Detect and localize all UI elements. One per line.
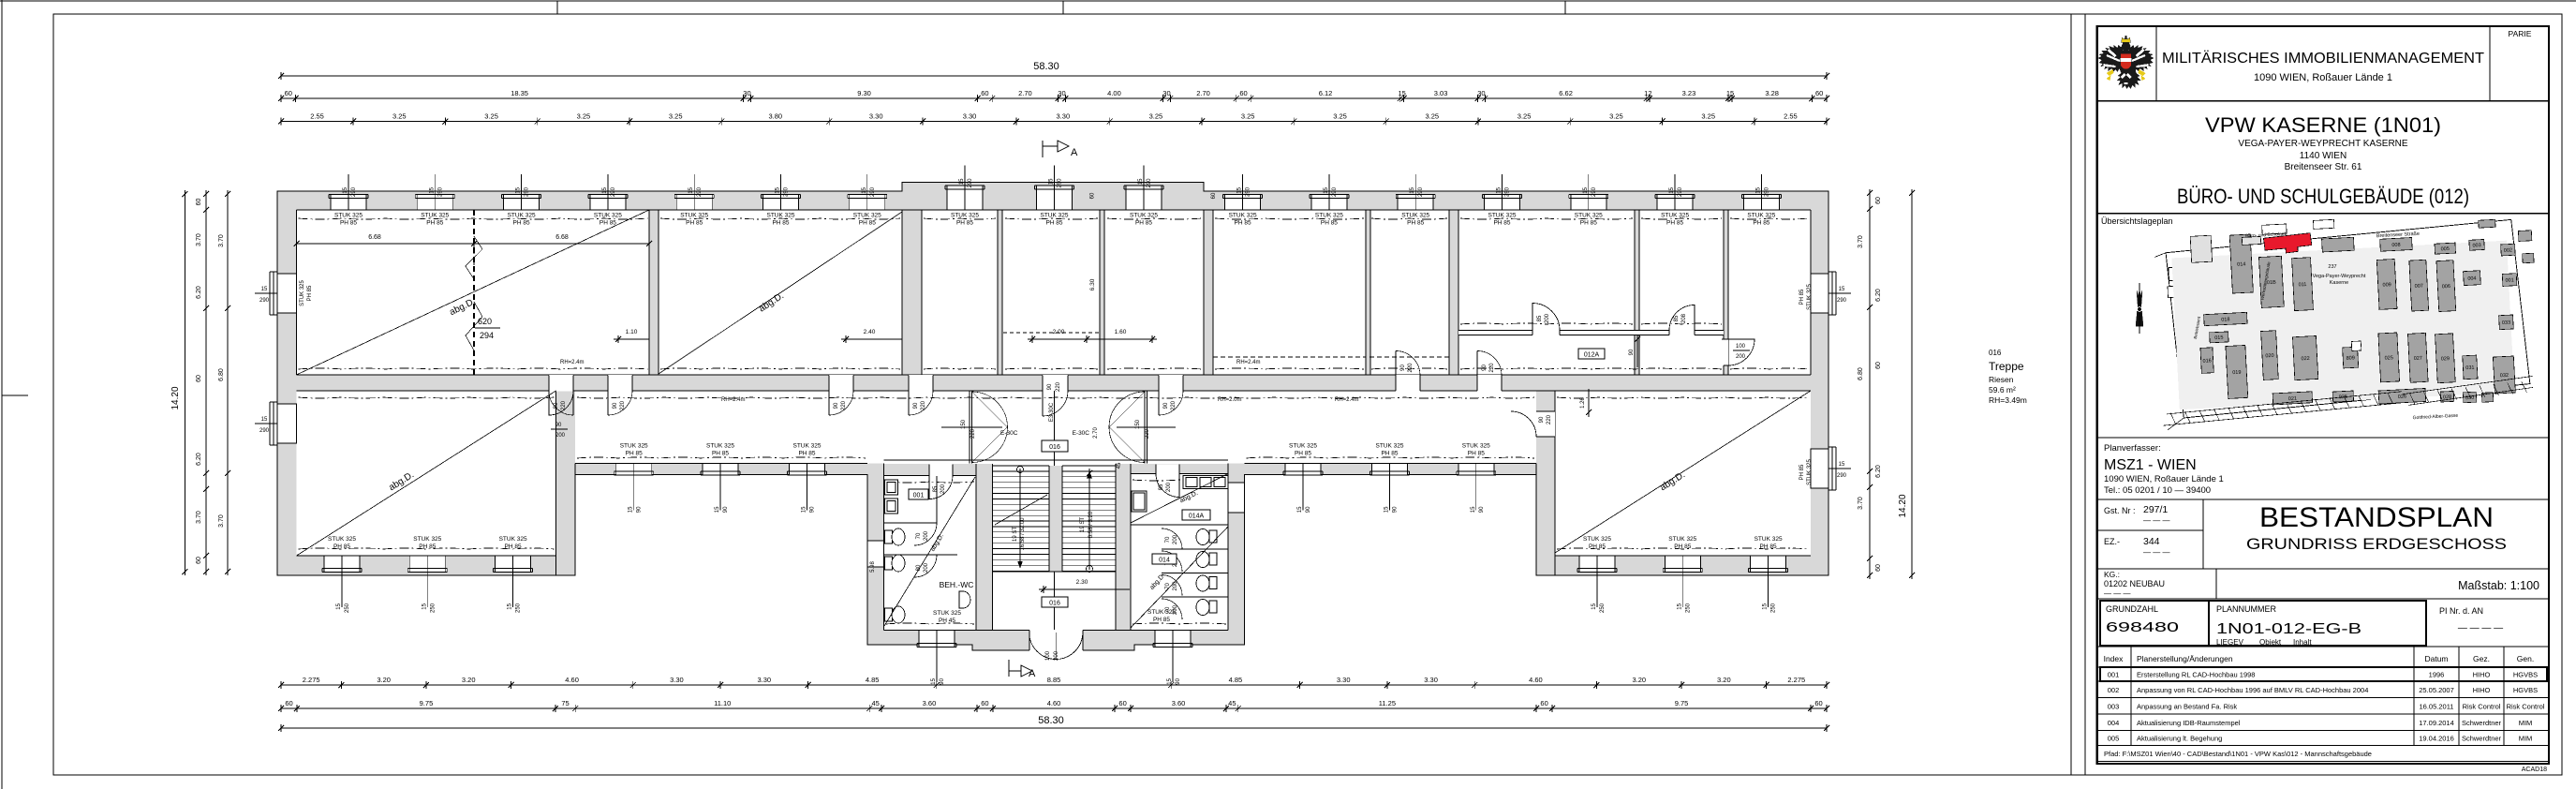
svg-text:200: 200: [1736, 354, 1746, 360]
svg-text:60: 60: [1875, 564, 1882, 572]
svg-text:60: 60: [1118, 699, 1126, 707]
svg-text:2.275: 2.275: [303, 676, 320, 684]
svg-text:PH 85: PH 85: [1321, 220, 1338, 227]
courtyard facade window 1: [614, 443, 654, 514]
staircase: [993, 462, 1123, 572]
svg-text:6.58 / 3.20: 6.58 / 3.20: [1088, 511, 1094, 538]
title area divider line 1: [2070, 14, 2072, 775]
upper thin partition 1: [998, 210, 1002, 375]
right wing south window 1: [1577, 536, 1617, 613]
svg-text:15: 15: [1324, 186, 1329, 193]
svg-text:— — —: — — —: [2104, 589, 2130, 598]
corridor door 4 90/220: [909, 375, 933, 415]
svg-text:220: 220: [841, 400, 847, 410]
svg-text:STUK 325: STUK 325: [1130, 213, 1158, 219]
top facade window 12: [1310, 174, 1349, 227]
svg-text:90: 90: [1482, 365, 1488, 371]
svg-text:Schwerdtner: Schwerdtner: [2462, 735, 2502, 743]
svg-text:15: 15: [516, 186, 522, 193]
west facade window upper: [255, 272, 313, 315]
svg-text:45: 45: [871, 699, 879, 707]
svg-text:290: 290: [259, 428, 270, 434]
svg-text:3.70: 3.70: [1858, 497, 1864, 510]
svg-text:PH 85: PH 85: [772, 220, 789, 227]
svg-text:90: 90: [1629, 349, 1635, 355]
svg-text:HGVBS: HGVBS: [2513, 686, 2538, 694]
svg-text:005: 005: [2441, 246, 2450, 252]
svg-text:15: 15: [959, 178, 965, 185]
svg-text:15: 15: [931, 677, 937, 684]
svg-text:032: 032: [2500, 373, 2509, 379]
svg-text:STUK 325: STUK 325: [853, 213, 881, 219]
svg-text:STUK 325: STUK 325: [300, 280, 305, 306]
svg-text:2.70: 2.70: [1093, 427, 1099, 439]
svg-text:14.20: 14.20: [170, 386, 181, 409]
upper thin partition 5: [1724, 210, 1728, 375]
corridor centre door 90/220: [1043, 375, 1068, 416]
upper thin partition 3: [1366, 210, 1370, 375]
svg-text:90: 90: [555, 423, 562, 428]
svg-text:294: 294: [480, 331, 494, 340]
svg-text:90: 90: [810, 506, 816, 513]
svg-text:30: 30: [1058, 89, 1065, 97]
svg-text:STUK 325: STUK 325: [413, 536, 441, 543]
stair spine wall: [1049, 466, 1062, 572]
svg-text:220: 220: [1145, 428, 1150, 439]
centre block south window 2: [1153, 631, 1192, 685]
centre block right wall: [1228, 464, 1245, 646]
svg-text:3.25: 3.25: [484, 112, 498, 121]
svg-text:290: 290: [351, 186, 357, 197]
svg-text:90: 90: [940, 677, 945, 684]
svg-text:015: 015: [2214, 335, 2223, 341]
site plan buildings: [2170, 217, 2541, 418]
svg-text:STUK 325: STUK 325: [793, 443, 822, 450]
svg-text:150: 150: [961, 419, 967, 429]
wavy centre block lines: [886, 480, 1227, 624]
svg-text:15: 15: [1583, 186, 1589, 193]
svg-text:PH 85: PH 85: [513, 220, 530, 227]
svg-text:150: 150: [1135, 419, 1141, 429]
svg-text:9.75: 9.75: [420, 699, 434, 707]
svg-text:1090 WIEN, Roßauer Lände 1: 1090 WIEN, Roßauer Lände 1: [2104, 474, 2224, 484]
left wing south window 2: [407, 536, 447, 613]
svg-text:19.04.2016: 19.04.2016: [2419, 735, 2454, 743]
svg-text:Ersterstellung RL CAD-Hochbau: Ersterstellung RL CAD-Hochbau 1998: [2137, 671, 2255, 679]
hallway 012A door 1: [1532, 304, 1560, 336]
svg-text:STUK 325: STUK 325: [620, 443, 648, 450]
svg-text:200: 200: [1054, 650, 1059, 661]
corridor door 3 90/220: [829, 375, 853, 415]
svg-text:90: 90: [613, 402, 618, 409]
top facade window 13: [1396, 174, 1435, 227]
svg-text:Riesen: Riesen: [1989, 375, 2014, 384]
svg-text:3.30: 3.30: [1057, 112, 1071, 121]
left wing south window 1: [322, 536, 362, 613]
svg-text:Inhalt: Inhalt: [2293, 638, 2312, 647]
svg-text:60: 60: [1814, 699, 1822, 707]
svg-text:VPW KASERNE (1N01): VPW KASERNE (1N01): [2205, 113, 2441, 137]
svg-text:STUK 325: STUK 325: [1488, 213, 1517, 219]
grundzahl plannummer cells: [2097, 601, 2549, 647]
svg-text:PH 85: PH 85: [1153, 617, 1170, 623]
svg-text:PH 85: PH 85: [307, 285, 313, 301]
svg-text:VEGA-PAYER-WEYPRECHT KASERNE: VEGA-PAYER-WEYPRECHT KASERNE: [2238, 139, 2407, 149]
top facade window 10: [1124, 166, 1163, 227]
parie label: [2509, 29, 2532, 38]
svg-text:4.60: 4.60: [565, 676, 579, 684]
svg-text:031: 031: [2465, 365, 2474, 371]
svg-text:STUK 325: STUK 325: [933, 610, 961, 617]
svg-text:RH=3.49m: RH=3.49m: [1989, 395, 2027, 405]
svg-text:PH 85: PH 85: [1799, 464, 1805, 480]
svg-text:250: 250: [1600, 603, 1606, 613]
svg-text:001: 001: [913, 493, 925, 499]
svg-text:PH 85: PH 85: [798, 451, 815, 457]
svg-text:STUK 325: STUK 325: [1807, 459, 1813, 485]
wc east top wall: [1116, 464, 1228, 474]
header company text: [2162, 51, 2485, 83]
svg-text:12: 12: [1644, 89, 1651, 97]
svg-text:60: 60: [285, 699, 292, 707]
svg-text:15: 15: [1471, 506, 1476, 513]
right wing left wall: [1536, 391, 1555, 575]
svg-text:Gez.: Gez.: [2473, 654, 2490, 663]
svg-text:60: 60: [981, 89, 988, 97]
svg-text:STUK 325: STUK 325: [1807, 284, 1813, 310]
svg-text:ACAD18: ACAD18: [2522, 767, 2547, 773]
svg-text:200: 200: [1545, 313, 1550, 323]
svg-text:3.25: 3.25: [1241, 112, 1255, 121]
svg-text:3.70: 3.70: [196, 233, 202, 246]
svg-text:9.30: 9.30: [857, 89, 871, 97]
svg-text:RH=2.0m: RH=2.0m: [1218, 397, 1242, 403]
svg-text:STUK 325: STUK 325: [706, 443, 734, 450]
svg-text:3.60: 3.60: [1172, 699, 1186, 707]
svg-text:6.12: 6.12: [1319, 89, 1333, 97]
revision table: [2097, 647, 2549, 762]
svg-text:70: 70: [1165, 583, 1171, 589]
svg-text:1996: 1996: [2429, 671, 2445, 679]
hallway dim 90: [1629, 335, 1640, 367]
left vertical dimension chain detail: [196, 190, 230, 575]
svg-text:85: 85: [1159, 484, 1164, 490]
svg-text:290: 290: [611, 186, 616, 197]
svg-text:PH 85: PH 85: [1799, 289, 1805, 305]
svg-text:15: 15: [261, 417, 268, 423]
svg-text:2.00: 2.00: [1053, 329, 1065, 335]
svg-text:290: 290: [1505, 186, 1511, 197]
svg-text:012A: 012A: [1584, 352, 1600, 359]
west facade window lower: [255, 402, 297, 445]
svg-text:HIHO: HIHO: [2473, 671, 2491, 679]
right wing south window 3: [1749, 536, 1788, 613]
svg-text:16.05.2011: 16.05.2011: [2420, 702, 2454, 710]
svg-text:1N01-012-EG-B: 1N01-012-EG-B: [2216, 621, 2361, 637]
svg-text:3.25: 3.25: [1517, 112, 1532, 121]
svg-text:STUK 325: STUK 325: [1229, 213, 1257, 219]
svg-text:90: 90: [834, 402, 839, 409]
fold mark left: [2, 394, 28, 396]
svg-text:4.85: 4.85: [866, 676, 880, 684]
svg-text:3.70: 3.70: [218, 514, 225, 528]
svg-text:MSZ1 - WIEN: MSZ1 - WIEN: [2104, 457, 2197, 473]
svg-text:Breitenseer Str. 61: Breitenseer Str. 61: [2285, 162, 2362, 172]
wavy ceiling lines upper rooms bottom: [299, 323, 1810, 369]
svg-text:15: 15: [1591, 603, 1597, 609]
svg-text:3.70: 3.70: [218, 234, 225, 247]
svg-text:PH 85: PH 85: [1468, 451, 1485, 457]
svg-text:60: 60: [1815, 89, 1823, 97]
svg-text:026: 026: [2398, 394, 2406, 400]
left wing room inner outline: [297, 391, 576, 575]
svg-text:PH 85: PH 85: [1381, 451, 1398, 457]
svg-text:Kaserne: Kaserne: [2330, 280, 2349, 286]
svg-text:220: 220: [1171, 400, 1177, 410]
top dimension chain overall 58.30: [278, 61, 1829, 80]
corridor door 1 90/220: [549, 375, 573, 415]
svg-text:3.25: 3.25: [1425, 112, 1439, 121]
svg-text:029: 029: [2441, 356, 2450, 362]
left wing diagonal abg.D: [297, 391, 556, 556]
svg-text:EZ.-: EZ.-: [2104, 537, 2120, 546]
courtyard facade window 5: [1370, 443, 1410, 514]
svg-text:25.05.2007: 25.05.2007: [2419, 686, 2454, 694]
svg-text:Anpassung von RL CAD-Hochbau 1: Anpassung von RL CAD-Hochbau 1996 auf BM…: [2137, 686, 2368, 694]
svg-text:60: 60: [196, 199, 202, 206]
svg-text:3.80: 3.80: [769, 112, 783, 121]
stair west wall: [976, 464, 993, 631]
svg-text:200: 200: [555, 433, 566, 439]
svg-text:3.23: 3.23: [1682, 89, 1696, 97]
svg-text:3.25: 3.25: [392, 112, 407, 121]
svg-text:Übersichtslageplan: Übersichtslageplan: [2101, 216, 2173, 226]
svg-text:3.20: 3.20: [1632, 676, 1646, 684]
svg-text:290: 290: [870, 186, 876, 197]
right wing diagonal abg.D: [1555, 391, 1811, 553]
svg-text:15: 15: [1049, 178, 1055, 185]
centre block south window 1: [917, 631, 956, 685]
svg-text:3.60: 3.60: [923, 699, 937, 707]
svg-text:100: 100: [1045, 650, 1051, 661]
svg-text:STUK 325: STUK 325: [334, 213, 363, 219]
svg-text:3.30: 3.30: [963, 112, 977, 121]
svg-text:2.55: 2.55: [1784, 112, 1798, 121]
svg-text:15: 15: [776, 186, 781, 193]
hallway 012A east door 100/200: [1722, 339, 1754, 365]
svg-text:HIHO: HIHO: [2473, 686, 2491, 694]
svg-text:PH 85: PH 85: [426, 220, 443, 227]
svg-text:3.25: 3.25: [1149, 112, 1163, 121]
wing door right 90/220: [1511, 411, 1555, 437]
svg-text:19 ST: 19 ST: [1080, 517, 1086, 532]
middle facade wall west part: [575, 464, 867, 475]
svg-text:STUK 325: STUK 325: [1575, 213, 1603, 219]
svg-text:250: 250: [345, 603, 350, 613]
svg-text:019: 019: [2232, 370, 2241, 376]
svg-text:237: 237: [2328, 264, 2336, 270]
svg-text:027: 027: [2414, 356, 2422, 362]
svg-text:3.25: 3.25: [1701, 112, 1715, 121]
svg-text:Aktualisierung lt. Begehung: Aktualisierung lt. Begehung: [2137, 735, 2222, 743]
svg-text:STUK 325: STUK 325: [680, 213, 708, 219]
svg-text:3.30: 3.30: [757, 676, 771, 684]
svg-text:90: 90: [554, 402, 559, 409]
svg-text:MIM: MIM: [2519, 719, 2533, 727]
svg-text:RH=2.4m: RH=2.4m: [721, 397, 746, 403]
acad label: [2522, 767, 2547, 773]
top facade window 17: [1741, 174, 1781, 227]
room 1 dim 1.10: [614, 329, 649, 343]
wing door left 90/200: [549, 391, 573, 439]
svg-text:STUK 325: STUK 325: [1462, 443, 1490, 450]
svg-text:90: 90: [1393, 506, 1399, 513]
stair room info text 016 Treppe: [1989, 349, 2027, 405]
corridor door 5 90/220: [1159, 375, 1183, 415]
svg-text:018: 018: [2221, 317, 2229, 322]
bottom dimension chain 1: [278, 676, 1829, 689]
svg-text:90: 90: [913, 402, 919, 409]
svg-text:250: 250: [1685, 603, 1691, 613]
svg-text:6.80: 6.80: [1858, 367, 1864, 380]
svg-text:208: 208: [1681, 313, 1687, 323]
upper partition wall 3: [1204, 210, 1213, 375]
svg-text:220: 220: [921, 400, 926, 410]
svg-text:014: 014: [2237, 261, 2245, 267]
svg-text:016: 016: [1989, 349, 2002, 357]
courtyard facade window 6: [1457, 443, 1496, 514]
title block outer border: [2097, 26, 2549, 764]
svg-text:6.20: 6.20: [1875, 465, 1882, 478]
stair east wall: [1116, 464, 1131, 631]
svg-text:90: 90: [1176, 677, 1181, 684]
svg-text:STUK 325: STUK 325: [767, 213, 795, 219]
svg-text:STUK 325: STUK 325: [951, 213, 979, 219]
svg-text:1.26: 1.26: [1580, 397, 1586, 409]
svg-text:025: 025: [2385, 355, 2393, 361]
svg-text:021: 021: [2288, 396, 2297, 402]
svg-text:15: 15: [862, 186, 867, 193]
svg-text:15: 15: [1297, 506, 1303, 513]
svg-text:STUK 325: STUK 325: [1041, 213, 1069, 219]
site plan labels: [2193, 231, 2459, 421]
austrian eagle emblem: [2098, 36, 2154, 89]
corridor door 6 90/220: [1396, 351, 1420, 392]
svg-text:15: 15: [1497, 186, 1503, 193]
svg-text:220: 220: [970, 428, 976, 439]
svg-text:011: 011: [2299, 282, 2307, 288]
svg-text:Risk Control: Risk Control: [2463, 702, 2501, 710]
section line A-A: [1054, 391, 1056, 650]
svg-text:Gst. Nr :: Gst. Nr :: [2104, 506, 2136, 515]
svg-text:15: 15: [1399, 89, 1406, 97]
svg-text:15: 15: [422, 603, 427, 609]
svg-text:GRUNDZAHL: GRUNDZAHL: [2106, 604, 2158, 614]
svg-text:15: 15: [261, 287, 268, 292]
svg-text:85: 85: [933, 485, 939, 492]
svg-text:45: 45: [1117, 462, 1122, 469]
svg-text:290: 290: [525, 186, 530, 197]
upper partition wall 1: [649, 210, 659, 375]
svg-text:220: 220: [1056, 381, 1061, 392]
svg-text:PH 85: PH 85: [600, 220, 616, 227]
svg-text:Risk Control: Risk Control: [2507, 702, 2545, 710]
svg-text:STUK 325: STUK 325: [1289, 443, 1317, 450]
svg-text:90: 90: [637, 506, 643, 513]
svg-text:297/1: 297/1: [2143, 504, 2168, 515]
corridor north wall: [297, 376, 1812, 392]
svg-text:17.09.2014: 17.09.2014: [2419, 719, 2454, 727]
svg-text:15: 15: [688, 186, 694, 193]
svg-text:STUK 325: STUK 325: [421, 213, 449, 219]
left wing bottom wall: [277, 556, 575, 575]
wc east rooms: [1131, 464, 1228, 628]
top facade window 1: [329, 174, 368, 227]
svg-text:6.20: 6.20: [1875, 289, 1882, 302]
svg-text:80: 80: [916, 564, 922, 571]
svg-text:Planerstellung/Änderungen: Planerstellung/Änderungen: [2137, 654, 2233, 663]
svg-text:290: 290: [1678, 186, 1683, 197]
svg-text:90: 90: [1400, 365, 1406, 371]
svg-text:6.68: 6.68: [555, 234, 569, 241]
top facade window 7: [848, 174, 887, 227]
svg-text:220: 220: [1489, 363, 1495, 373]
svg-text:3.28: 3.28: [1765, 89, 1779, 97]
svg-text:90: 90: [723, 506, 729, 513]
svg-text:18.35: 18.35: [511, 89, 528, 97]
svg-text:30: 30: [743, 89, 750, 97]
svg-text:9.75: 9.75: [1675, 699, 1689, 707]
top facade window 6: [762, 174, 801, 227]
title block header cell lines: [2097, 26, 2549, 101]
room 2 diagonal abg.D: [659, 212, 902, 374]
svg-text:6.20: 6.20: [196, 286, 202, 299]
svg-text:PH 85: PH 85: [1135, 220, 1152, 227]
svg-text:HGVBS: HGVBS: [2513, 671, 2538, 679]
svg-text:PH 85: PH 85: [1666, 220, 1683, 227]
svg-text:15: 15: [1384, 506, 1390, 513]
right vertical dimension chain detail: [1858, 189, 1882, 579]
svg-text:200: 200: [1173, 581, 1178, 591]
upper partition wall 2: [902, 210, 922, 375]
svg-text:1.10: 1.10: [626, 329, 638, 335]
svg-text:90: 90: [1539, 416, 1545, 423]
svg-text:RH=2.4m: RH=2.4m: [1236, 360, 1261, 365]
svg-text:PH 85: PH 85: [1493, 220, 1510, 227]
svg-text:60: 60: [1540, 699, 1547, 707]
svg-text:19 ST: 19 ST: [1013, 527, 1018, 542]
svg-text:Planverfasser:: Planverfasser:: [2104, 443, 2161, 454]
svg-text:PLANNUMMER: PLANNUMMER: [2216, 604, 2277, 614]
svg-text:290: 290: [1764, 186, 1769, 197]
svg-text:STUK 325: STUK 325: [1401, 213, 1429, 219]
svg-text:15: 15: [629, 506, 634, 513]
svg-text:75: 75: [561, 699, 569, 707]
svg-text:3.20: 3.20: [377, 676, 391, 684]
svg-text:Treppe: Treppe: [1989, 360, 2024, 373]
svg-text:290: 290: [1837, 473, 1847, 479]
svg-text:002: 002: [2504, 247, 2512, 253]
svg-text:290: 290: [968, 178, 973, 188]
svg-text:85: 85: [1537, 315, 1543, 321]
title area divider line 2: [2084, 14, 2086, 775]
svg-text:E3-30C: E3-30C: [1049, 402, 1055, 422]
wavy wing room lines: [299, 397, 1809, 549]
svg-text:3.20: 3.20: [462, 676, 476, 684]
bottom dimension chain overall 58.30: [278, 715, 1829, 732]
svg-text:90: 90: [1163, 402, 1169, 409]
wavy ceiling lines upper rooms top: [299, 218, 1810, 219]
